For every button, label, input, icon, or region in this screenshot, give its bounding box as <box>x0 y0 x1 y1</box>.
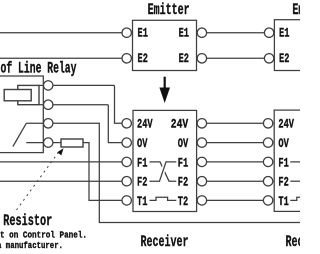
symbol U4 F1 stub <box>290 161 302 163</box>
relay K1 coil rect B <box>4 90 31 101</box>
svg-text:T1: T1 <box>137 194 148 209</box>
svg-text:Resistor: Resistor <box>3 212 52 230</box>
terminal U3 24V left <box>122 119 131 128</box>
wire 0V link receivers <box>207 142 264 144</box>
symbol U4 T1 pulse stub <box>290 197 302 200</box>
symbol U4 F2 stub <box>290 180 302 182</box>
symbol F1-F2 crossover path B underlay <box>150 162 177 181</box>
symbol F1-F2 crossover path B <box>150 162 177 181</box>
wire coil B stub <box>39 104 44 106</box>
svg-text:F2: F2 <box>178 175 189 190</box>
receiver U3 box <box>133 110 197 211</box>
wire node drop 24V <box>115 85 122 123</box>
terminal U3 0V right <box>197 138 206 147</box>
svg-text:F2: F2 <box>137 175 148 190</box>
annotation arrowhead at resistor <box>57 148 63 155</box>
wire F2 left feed <box>0 180 122 182</box>
svg-text:Emitter: Emitter <box>148 1 190 19</box>
terminal U4 0V <box>263 138 272 147</box>
terminal U1 E2 right <box>197 54 206 63</box>
wire T2-T1 link receivers <box>207 199 264 201</box>
terminal U4 T1 <box>263 196 272 205</box>
terminal U4 F2 <box>263 177 272 186</box>
svg-text:24V: 24V <box>137 117 153 132</box>
terminal U3 F1 right <box>197 157 206 166</box>
wire E2 link to emitter 2 <box>207 57 265 59</box>
svg-text:OV: OV <box>137 136 148 151</box>
svg-text:a manufacturer.: a manufacturer. <box>0 240 63 251</box>
svg-text:E2: E2 <box>179 51 190 66</box>
terminal K1 contact top <box>44 119 53 128</box>
wire F1 left feed <box>0 161 122 163</box>
wire contact top stub <box>26 122 43 124</box>
svg-text:of Line Relay: of Line Relay <box>1 60 77 78</box>
receiver U4 box (cut at right edge) <box>274 110 304 211</box>
svg-text:F1: F1 <box>137 155 148 170</box>
svg-text:OV: OV <box>178 136 189 151</box>
resistor R1 <box>61 139 83 147</box>
terminal U3 F1 left <box>122 157 131 166</box>
symbol T1-T2 pulse link <box>150 197 177 200</box>
wire contact bottom stub <box>26 142 43 144</box>
svg-text:Receiver: Receiver <box>141 233 189 251</box>
svg-text:E2: E2 <box>279 51 290 66</box>
emitter U2 box (cut at right edge) <box>274 20 304 71</box>
svg-text:E1: E1 <box>279 25 290 40</box>
svg-text:OV: OV <box>278 136 289 151</box>
svg-text:24V: 24V <box>171 117 189 132</box>
terminal K1 coil A <box>44 81 53 90</box>
svg-text:E1: E1 <box>138 25 149 40</box>
wire coil A stub <box>39 84 44 86</box>
svg-text:E2: E2 <box>138 51 149 66</box>
terminal U3 24V right <box>197 119 206 128</box>
symbol F1-F2 crossover path A <box>150 162 177 181</box>
svg-text:Receiver: Receiver <box>286 233 301 251</box>
wire coil B to node <box>53 104 108 106</box>
terminal U3 F2 right <box>197 177 206 186</box>
terminal U4 24V <box>263 119 272 128</box>
wire E1 left feed <box>0 32 122 34</box>
svg-text:E1: E1 <box>179 25 190 40</box>
terminal U3 0V left <box>122 138 131 147</box>
terminal U1 E2 left <box>122 54 131 63</box>
terminal U2 E1 <box>264 28 273 37</box>
wire 24V link receivers <box>207 122 264 124</box>
svg-text:F2: F2 <box>278 175 289 190</box>
svg-text:F1: F1 <box>278 155 289 170</box>
arrow emitter to receiver <box>159 77 170 103</box>
terminal U2 E2 <box>264 54 273 63</box>
annotation dashed leader to resistor <box>17 152 60 211</box>
emitter U1 box <box>133 20 197 70</box>
svg-text:F1: F1 <box>178 155 189 170</box>
wire F2 link receivers <box>207 180 264 182</box>
wire contact bottom to resistor <box>53 142 61 144</box>
terminal K1 contact bottom <box>44 138 53 147</box>
svg-text:T1: T1 <box>278 194 289 209</box>
relay K1 box (cut at left edge) <box>0 76 43 153</box>
wire node drop 0V <box>108 105 122 143</box>
wire contact top to bottom rail <box>53 123 300 222</box>
relay K1 coil rect A <box>18 85 39 104</box>
wire resistor to T1 <box>83 143 122 201</box>
svg-text:24V: 24V <box>278 117 294 132</box>
wire E1 link to emitter 2 <box>207 32 265 34</box>
terminal U1 E1 right <box>197 28 206 37</box>
terminal U1 E1 left <box>122 28 131 37</box>
terminal U3 T1 left <box>122 196 131 205</box>
terminal U3 F2 left <box>122 177 131 186</box>
terminal K1 coil B <box>44 100 53 109</box>
contact K1 blade <box>13 123 26 146</box>
wire F1 link receivers <box>207 161 264 163</box>
wire coil A to node <box>53 84 115 86</box>
svg-text:Emitter: Emitter <box>292 1 300 19</box>
terminal U3 T2 right <box>197 196 206 205</box>
svg-text:T2: T2 <box>178 194 189 209</box>
terminal U4 F1 <box>263 157 272 166</box>
wire E2 left feed <box>0 57 122 59</box>
